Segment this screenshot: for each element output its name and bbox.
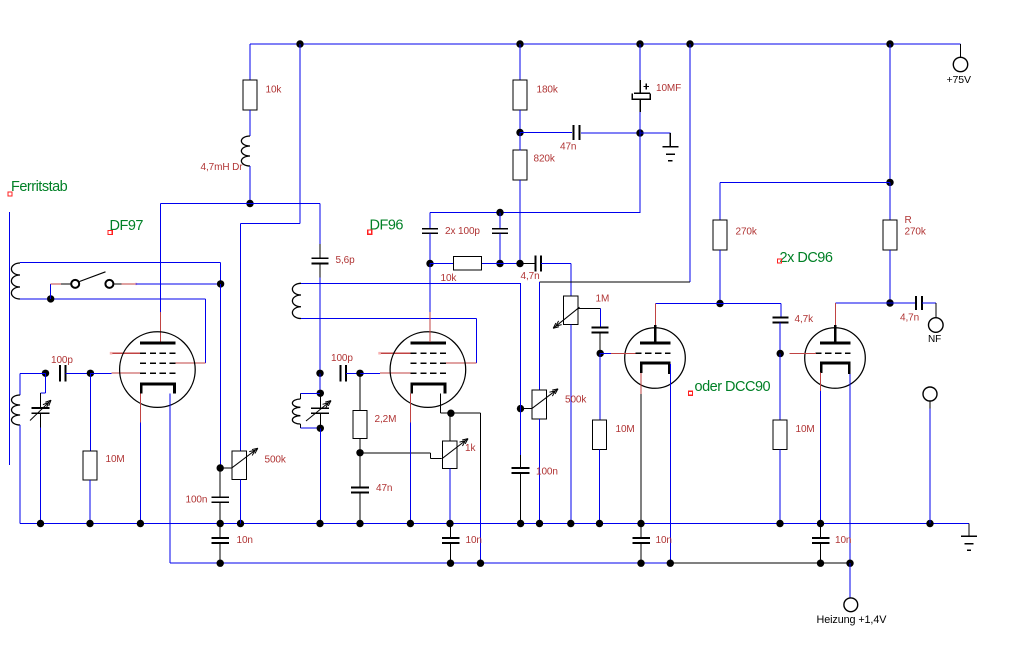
wire 5,6p top stem [319, 204, 321, 245]
junction node B divider [516, 129, 523, 136]
ferrite rod line [9, 212, 11, 465]
svg-text:1M: 1M [596, 294, 610, 305]
terminal Heizung [844, 598, 858, 612]
wire V4 fil-right drop [849, 374, 851, 563]
capacitor 4,7n V3 grid [592, 328, 609, 333]
junction 500k2 wiper tap [517, 405, 524, 412]
svg-text:4,7n: 4,7n [900, 313, 919, 324]
wire L1 top [20, 262, 221, 264]
tube V3 DC96 triode [625, 325, 686, 389]
svg-text:5,6p: 5,6p [336, 255, 356, 266]
wire L1 bottom [20, 298, 206, 300]
wire jog down [430, 453, 432, 459]
wire 10na bottom stem [219, 543, 221, 563]
wire ground bus [20, 523, 969, 525]
pin V4 anode (red) [834, 303, 836, 325]
wire node G to pin [600, 352, 611, 354]
junction heater bus 7 [846, 560, 853, 567]
wire C 100p2 to node S [346, 372, 360, 374]
wire node M jog [45, 373, 47, 393]
wire 5,6p bottom [319, 278, 321, 374]
wire L2 to bus [19, 425, 21, 524]
wire drop to pot 1M [570, 264, 572, 297]
wire C 100n to bus [219, 503, 221, 524]
wire node P to Q [319, 373, 321, 393]
potentiometer 500k volume [532, 390, 547, 419]
wire node C drop [639, 133, 641, 213]
variable capacitor CV2 [311, 393, 329, 428]
wire R 2,2M to node T [359, 439, 361, 454]
wire V4 anode horizontal [835, 302, 915, 304]
pin V2 g2 (red) [446, 362, 476, 364]
wire L3 bottom to g2 [301, 318, 476, 320]
svg-text:100n: 100n [536, 467, 558, 478]
junction node K V4 grid [777, 350, 784, 357]
junction node J V4 anode [886, 299, 893, 306]
capacitor 10n c [632, 538, 650, 543]
svg-text:500k: 500k [265, 455, 287, 466]
wire C 47n to node C [581, 132, 640, 134]
inductor 4,7mH Dr choke [241, 136, 250, 166]
ground symbol top [662, 133, 678, 161]
junction node D [426, 260, 433, 267]
wire V3 fil-left to bus [640, 394, 642, 524]
wire C 100p to node N [66, 372, 91, 374]
wire pot 1M bottom [570, 325, 572, 524]
capacitor 2x100p right [492, 229, 508, 234]
svg-text:Heizung +1,4V: Heizung +1,4V [817, 614, 888, 626]
anchor 2x DC96 [778, 259, 782, 263]
wire R 10M3 to bus [779, 450, 781, 524]
svg-text:10M: 10M [616, 424, 635, 435]
wire V3 fil-right drop [669, 364, 671, 563]
wire heater to terminal [849, 563, 851, 598]
capacitor 4,7n det [535, 256, 541, 272]
wire node D to R 10k2 [430, 263, 453, 265]
junction ground bus x=220.2 [217, 520, 224, 527]
capacitor 5,6p [312, 244, 329, 278]
svg-text:DF96: DF96 [370, 218, 404, 234]
junction ground bus x=360 [356, 520, 363, 527]
capacitor 100n V1 [211, 497, 229, 502]
capacitor 4,7n NF out [916, 296, 922, 310]
junction heater bus 4 [637, 560, 644, 567]
junction node F [516, 260, 523, 267]
junction node U [447, 410, 454, 417]
wire jog y=223.6 [241, 223, 301, 225]
pin V1 g1 (red) [112, 372, 141, 374]
capacitor 10MF electrolytic [632, 80, 650, 112]
wire node H to R 270k2 [889, 182, 891, 220]
wire top +75V supply rail [250, 43, 961, 45]
wire g2 riser [475, 319, 477, 364]
resistor 2,2M grid leak [353, 411, 367, 439]
junction ground bus x=820.5 [817, 520, 824, 527]
svg-text:10M: 10M [796, 424, 815, 435]
wire rail drop x=890 [889, 44, 891, 182]
inductor antenna coil L1 [11, 263, 20, 299]
wire V3 anode horizontal [655, 303, 781, 305]
wire right 100p drop [499, 213, 501, 229]
capacitor 47n top [574, 125, 580, 140]
svg-text:100n: 100n [186, 495, 208, 506]
capacitor 100p V1 grid [60, 365, 66, 382]
junction ground bus x=599.5 [596, 520, 603, 527]
capacitor 4,7k coupling [773, 318, 789, 323]
capacitor 10n a [211, 538, 229, 543]
pin V2 anode (red) [429, 312, 431, 342]
terminal NF [929, 318, 944, 333]
svg-text:10M: 10M [106, 454, 125, 465]
svg-text:820k: 820k [534, 154, 556, 165]
wire node T to pot 1k [360, 452, 431, 454]
junction node R tank2 bottom [317, 425, 324, 432]
junction rail x=300 [296, 40, 303, 47]
wire corner to L4 [299, 393, 301, 399]
junction ground bus x=320 [316, 520, 323, 527]
wire drop to pot 500k top [240, 224, 242, 451]
wire 10nc top stem [640, 524, 642, 538]
junction heater bus 3 [477, 560, 484, 567]
wire R 10M1 to bus [89, 480, 91, 524]
junction node T [356, 449, 363, 456]
junction heater bus 1 [217, 560, 224, 567]
wire node B to C 47n [520, 132, 572, 134]
tube V4 DC96 triode [805, 325, 866, 389]
svg-text:500k: 500k [565, 395, 587, 406]
wire rail drop x=690 [689, 44, 691, 282]
wire tank2 to bus [319, 428, 321, 523]
svg-text:270k: 270k [905, 227, 927, 238]
svg-text:270k: 270k [736, 227, 758, 238]
tube V1 DF97 pentode [120, 332, 196, 408]
potentiometer 1k regeneration [443, 441, 458, 469]
wire pot 1k bottom [449, 469, 451, 524]
pin V4 fil-left (red) [820, 373, 822, 392]
svg-text:10n: 10n [466, 535, 482, 546]
wire node N to R 10M1 [89, 373, 91, 451]
pin V2 fil-left (red) [409, 393, 411, 422]
pin V1 g3 stub (red) [112, 352, 141, 354]
inductor feedback coil L3 [292, 283, 301, 318]
capacitor 10n d [812, 538, 830, 543]
wire C 4,7k to node K [779, 323, 781, 354]
wire L4 bottom [300, 427, 320, 429]
wire V2 fil-left to bus [409, 423, 411, 524]
wire earth terminal to bus [929, 409, 931, 524]
wire node B to R 820k [519, 133, 521, 151]
wire R 270k2 to node J [889, 250, 891, 303]
svg-text:4,7mH Dr: 4,7mH Dr [201, 162, 244, 173]
wire R 180k to node B [519, 110, 521, 133]
junction node A choke bottom [246, 200, 253, 207]
junction node N [87, 370, 94, 377]
potentiometer 1M [564, 296, 579, 325]
resistor 270k V3 plate [713, 220, 727, 250]
junction ground bus x=570.8 [567, 520, 574, 527]
junction ground bus x=410.4 [407, 520, 414, 527]
wire drop to C 4,7k [780, 304, 782, 317]
wire C 47n2 to bus [359, 493, 361, 524]
svg-text:10n: 10n [835, 535, 851, 546]
junction ground bus x=780 [776, 520, 783, 527]
wire node S to pin [360, 372, 380, 374]
wire tube V1 anode riser [159, 204, 161, 313]
svg-text:180k: 180k [537, 85, 559, 96]
resistor 10M V1 grid leak [83, 451, 97, 480]
wire node N to pin [90, 372, 111, 374]
anchor DF97 [108, 231, 112, 235]
wire earth terminal stub [929, 401, 931, 409]
wire node L drop x=220 [220, 284, 222, 468]
anchor oder DCC90 [689, 391, 693, 395]
svg-text:Ferritstab: Ferritstab [11, 179, 68, 195]
wire heater bus black [670, 562, 850, 564]
capacitor 2x100p left [422, 229, 438, 234]
junction heater bus 5 [667, 560, 674, 567]
wire pot 500k1 bottom [240, 480, 242, 524]
wire pot 500k2 wiper [521, 408, 533, 410]
wire C 4,7n2 to node G [599, 333, 601, 354]
junction node C [636, 129, 643, 136]
pin V2 g1 (red) [380, 372, 410, 374]
junction ground bus x=520.6 [517, 520, 524, 527]
wire R 10k2 to node E [482, 263, 500, 265]
wire CV1 to bus [40, 428, 42, 524]
junction switch left [47, 295, 54, 302]
terminal +75V [953, 57, 967, 71]
wire node C to ground [640, 132, 670, 134]
wire 10nb bottom stem [450, 543, 452, 563]
wire switch left leg [50, 284, 52, 299]
wire y283 corner drop [520, 283, 522, 455]
junction ground bus x=90 [86, 520, 93, 527]
svg-text:NF: NF [928, 334, 941, 345]
junction ground bus x=240.5 [237, 520, 244, 527]
junction ground bus x=140.4 [137, 520, 144, 527]
svg-text:10n: 10n [656, 535, 672, 546]
svg-text:+75V: +75V [947, 74, 972, 86]
switch S1 [51, 272, 137, 288]
capacitor 10n b [442, 538, 460, 543]
wire wiper stub [220, 467, 232, 469]
wire V4 fil-left to bus [820, 391, 822, 524]
junction node L [217, 280, 224, 287]
wire node M left [20, 372, 45, 374]
wire jog left [41, 392, 46, 394]
wire V1 fil-right drop [169, 393, 171, 563]
junction heater bus 2 [447, 560, 454, 567]
wire node Q left [300, 392, 320, 394]
wire x=480 drop blue [480, 490, 482, 563]
inductor osc coil L4 [292, 399, 300, 424]
anchor DF96 [368, 230, 372, 234]
pin V3 anode (red) [654, 304, 656, 326]
wire R 10M2 to bus [599, 450, 601, 524]
wire 10nb top stem [450, 524, 452, 538]
resistor 10M V3 grid leak [593, 420, 607, 450]
wire R 820k down [519, 180, 521, 264]
wire drop to R 270k1 [719, 182, 721, 220]
wire R 10k to choke [249, 110, 251, 136]
wire choke to node A [249, 166, 251, 204]
svg-text:oder DCC90: oder DCC90 [695, 379, 771, 395]
wire rail to C 10MF [639, 44, 641, 80]
wire C 4,7n to pot 1M [541, 263, 571, 265]
wire rail to R 180k [519, 44, 521, 81]
junction rail x=640 [636, 40, 643, 47]
svg-text:100p: 100p [331, 353, 353, 364]
wire pot 500k2 bottom [539, 419, 541, 524]
wire x=220 to C 100n [219, 468, 221, 497]
wire 10nd top stem [820, 524, 822, 538]
terminal antenna/earth [923, 387, 937, 401]
wire right 100p to node E [499, 234, 501, 264]
resistor 10k AGC [454, 256, 482, 270]
svg-text:10k: 10k [266, 85, 283, 96]
wire V2 anode riser [429, 264, 431, 313]
wire R 270k1 to node I [719, 250, 721, 304]
junction node P tank2 top [316, 370, 323, 377]
svg-text:2x DC96: 2x DC96 [780, 250, 833, 266]
junction rail x=690 [686, 40, 693, 47]
wire 10nc bottom stem [640, 543, 642, 563]
wire rail to R 10k [249, 44, 251, 81]
wire node T to C 47n2 [359, 453, 361, 487]
wire C out to corner [922, 302, 936, 304]
capacitor 47n V2 cathode [351, 488, 369, 493]
junction rail x=520 [516, 40, 523, 47]
ground symbol right [961, 524, 977, 551]
potentiometer 500k regen [232, 451, 247, 480]
resistor 820k [513, 150, 527, 180]
junction ground bus x=539.5 [536, 520, 543, 527]
svg-text:DF97: DF97 [110, 218, 144, 234]
wire y=212.5 across [430, 212, 641, 214]
wire x=480 drop [480, 413, 482, 490]
pin V1 fil-left (red) [139, 393, 141, 422]
junction node G V3 grid [597, 350, 604, 357]
junction ground bus x=930 [926, 520, 933, 527]
junction node S [356, 370, 363, 377]
junction ground bus x=40.5 [37, 520, 44, 527]
junction ground bus x=641 [637, 520, 644, 527]
wire left 100p drop [429, 213, 431, 229]
junction pot 500k1 wiper [217, 464, 224, 471]
svg-text:2,2M: 2,2M [375, 414, 397, 425]
svg-text:10MF: 10MF [656, 83, 681, 94]
svg-text:4,7n: 4,7n [521, 271, 540, 282]
svg-text:10n: 10n [237, 535, 253, 546]
wire wiper to C 4,7n2 [600, 309, 602, 327]
tube V2 DF96 pentode [390, 332, 466, 408]
wire rail drop x=300 [299, 44, 301, 224]
wire node F to C 4,7n [520, 263, 535, 265]
pin V3 grid (red) [611, 352, 635, 354]
resistor 10M V4 grid leak [773, 420, 787, 450]
wire pot 1M wiper [578, 308, 600, 310]
wire L3 top to x=520 [301, 282, 520, 284]
junction node E [496, 260, 503, 267]
wire drop to pot 500k2 [539, 282, 541, 390]
wire pot 1k top [449, 413, 451, 441]
wire V1 g2 riser [205, 299, 207, 363]
wire heater bus blue [170, 562, 670, 564]
wire 10na top stem [219, 524, 221, 538]
resistor 10k anode feed [243, 80, 257, 110]
wire jog to wiper [431, 458, 442, 460]
pin V2 fil-right [440, 393, 442, 413]
junction 2x100p right top [496, 209, 503, 216]
wire C 10MF to node C [639, 112, 641, 133]
junction node H [886, 179, 893, 186]
wire y=282 black [540, 281, 691, 283]
inductor osc coil L2 [12, 395, 21, 425]
wire to C 100n2 [520, 455, 522, 468]
svg-text:47n: 47n [560, 142, 576, 153]
svg-text:47n: 47n [376, 483, 392, 494]
wire left 100p to node D [429, 234, 431, 264]
svg-text:100p: 100p [51, 355, 73, 366]
pin V4 grid (red) [789, 353, 816, 355]
junction rail x=890 [886, 40, 893, 47]
junction ground bus x=450 [446, 520, 453, 527]
wire node K to R 10M3 [779, 354, 781, 421]
pin V3 fil-left (red) [640, 373, 642, 394]
wire switch to node L [135, 283, 220, 285]
svg-text:2x 100p: 2x 100p [445, 226, 480, 237]
variable capacitor CV1 [32, 393, 50, 428]
anchor Ferritstab [8, 192, 12, 196]
wire fil-right to node U [441, 412, 451, 414]
wire node H left [720, 181, 890, 183]
junction node M tank1 [42, 370, 49, 377]
pin V2 g3 stub (red) [380, 352, 410, 354]
wire node E to node F [500, 263, 520, 265]
svg-text:4,7k: 4,7k [795, 314, 815, 325]
wire node S to R 2,2M [359, 373, 361, 410]
resistor R 270k V4 plate [883, 220, 897, 250]
wire node G to R 10M2 [599, 353, 601, 420]
terminal +75V stub [960, 44, 962, 58]
wire corner to L2 [19, 373, 21, 395]
capacitor 100n AF [512, 468, 530, 473]
svg-text:R: R [905, 215, 912, 226]
svg-text:1k: 1k [465, 443, 476, 454]
wire L4 bottom step [299, 424, 301, 428]
wire L1 top corner down [220, 263, 222, 284]
wire node A horizontal [160, 203, 320, 205]
svg-text:10k: 10k [441, 273, 458, 284]
pin V1 g2 (red) [176, 362, 206, 364]
wire V1 fil-left to bus [139, 423, 141, 524]
junction node I V3 anode [716, 300, 723, 307]
junction node Q [317, 390, 324, 397]
capacitor 100p V2 grid [341, 365, 347, 382]
wire node U to corner [451, 412, 481, 414]
wire C 100n2 to bus [520, 473, 522, 524]
junction heater bus 6 [817, 560, 824, 567]
resistor 180k [513, 80, 527, 110]
wire 10nd bottom stem [820, 543, 822, 563]
pin V1 anode (red) [159, 312, 161, 342]
wire drop to NF terminal [935, 303, 937, 318]
